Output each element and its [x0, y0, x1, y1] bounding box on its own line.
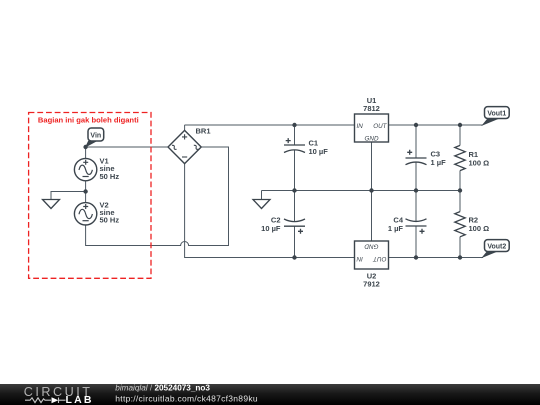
wire mid ground stub	[261, 191, 263, 200]
ground (left, between V1 and V2)	[43, 200, 60, 209]
regulator U2	[355, 241, 389, 269]
wire V1 bottom to V2 top	[85, 181, 87, 203]
svg-text:50 Hz: 50 Hz	[100, 216, 120, 225]
svg-text:50 Hz: 50 Hz	[100, 172, 120, 181]
svg-text:100 Ω: 100 Ω	[469, 224, 490, 233]
svg-text:GND: GND	[365, 135, 379, 142]
wire top rail bridge to U1 IN	[185, 124, 355, 126]
bridge rectifier BR1	[168, 130, 201, 163]
wire U1 GND to mid rail	[371, 142, 373, 191]
wire Vin node to V1 top	[85, 147, 87, 159]
svg-text:LAB: LAB	[66, 394, 92, 405]
svg-text:http://circuitlab.com/ck487cf3: http://circuitlab.com/ck487cf3n89ku	[115, 393, 258, 403]
wire R1 leads	[459, 125, 461, 191]
wire U2 OUT to Vout2	[389, 257, 484, 259]
flag Vin	[85, 141, 98, 148]
wire C2 branch	[294, 191, 296, 258]
svg-text:GND: GND	[364, 243, 378, 250]
capacitor C3	[406, 150, 427, 165]
flag Vout2	[481, 251, 498, 258]
svg-text:7812: 7812	[363, 104, 380, 113]
footer bar	[0, 384, 540, 405]
ground (mid rail)	[253, 200, 270, 209]
regulator U1	[355, 114, 389, 142]
annotation box (red dashed)	[29, 113, 151, 279]
svg-text:OUT: OUT	[372, 255, 386, 262]
resistor R1	[455, 145, 465, 170]
svg-text:BR1: BR1	[196, 127, 211, 136]
capacitor C2	[284, 219, 305, 234]
svg-text:1 µF: 1 µF	[388, 224, 404, 233]
svg-text:OUT: OUT	[373, 123, 387, 130]
svg-text:10 µF: 10 µF	[261, 224, 281, 233]
wire C4 branch	[415, 191, 417, 258]
wire bridge top vertex to rail	[184, 125, 186, 130]
svg-text:10 µF: 10 µF	[309, 147, 329, 156]
wire V2 bottom to AC2 with hop over bridge minus wire	[86, 147, 229, 246]
svg-text:100 Ω: 100 Ω	[469, 159, 490, 168]
logo squiggle	[25, 398, 66, 404]
capacitor C4	[406, 219, 427, 234]
svg-text:Bagian ini gak boleh diganti: Bagian ini gak boleh diganti	[38, 115, 139, 124]
svg-text:bimaiqlal / 20524073_no3: bimaiqlal / 20524073_no3	[115, 384, 210, 393]
wire mid ground rail	[262, 190, 461, 192]
wire U1 OUT to Vout1	[389, 124, 484, 126]
node junction dots	[83, 123, 462, 260]
svg-text:IN: IN	[357, 123, 364, 130]
svg-text:IN: IN	[356, 255, 363, 262]
wire bridge minus down and bottom rail to U2	[185, 164, 355, 258]
svg-text:Vout1: Vout1	[487, 110, 506, 117]
resistor R2	[455, 212, 465, 237]
wire R2 leads	[459, 191, 461, 258]
wire C3 branch	[415, 125, 417, 191]
wire U2 GND to mid rail	[371, 191, 373, 242]
wire node to left ground	[51, 192, 86, 200]
capacitor C1	[284, 138, 305, 152]
svg-text:Vin: Vin	[90, 133, 101, 140]
wire Vin node to bridge left vertex	[86, 146, 168, 148]
svg-text:7912: 7912	[363, 280, 380, 289]
svg-text:1 µF: 1 µF	[431, 158, 447, 167]
svg-text:Vout2: Vout2	[487, 243, 506, 250]
wire C1 branch	[294, 125, 296, 191]
source V2	[74, 203, 96, 225]
flag Vout1	[481, 119, 498, 126]
source V1	[74, 158, 96, 180]
